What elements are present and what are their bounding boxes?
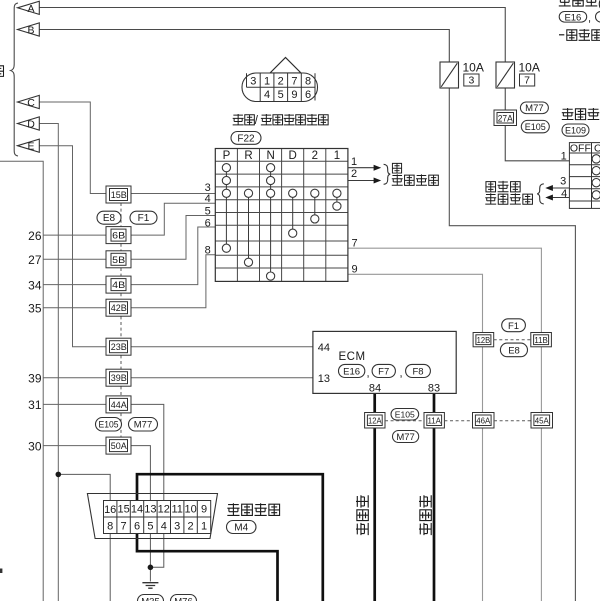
fuse 3 number box xyxy=(464,74,479,86)
svg-text:7: 7 xyxy=(524,75,530,87)
svg-text:ECM: ECM xyxy=(339,351,366,363)
F22 contact circles xyxy=(222,164,341,281)
connector 5B xyxy=(106,251,131,268)
svg-text:E8: E8 xyxy=(103,213,116,224)
svg-text:44: 44 xyxy=(318,342,330,354)
svg-text:1: 1 xyxy=(351,156,357,168)
connector label E105 xyxy=(96,418,122,432)
fuse 3 10A xyxy=(440,62,459,88)
dashed links 12A 11A 46A 45A xyxy=(385,420,531,422)
svg-text:10A: 10A xyxy=(463,61,484,75)
wire pin 26 to 6B xyxy=(43,234,106,236)
M4 cells row 1 xyxy=(104,501,211,534)
small mark at left edge bottom xyxy=(0,569,2,574)
wire M4 pin 5 to ground junction xyxy=(149,534,151,582)
connector 11B xyxy=(531,333,552,347)
svg-text:E16: E16 xyxy=(343,367,360,378)
svg-text:27A: 27A xyxy=(498,113,514,124)
svg-text:E105: E105 xyxy=(99,420,119,430)
wire D down to bottom xyxy=(39,124,58,601)
connector 12B xyxy=(473,333,494,347)
svg-text:12B: 12B xyxy=(477,335,491,345)
M4 cell numbers xyxy=(104,504,207,533)
svg-text:D: D xyxy=(27,119,35,131)
wire 5B to F22 pin 5 xyxy=(131,216,215,260)
connector 23B xyxy=(106,338,131,355)
off-page arrow E xyxy=(18,139,40,153)
wire pin 34 to 4B xyxy=(43,284,106,286)
svg-text:39: 39 xyxy=(28,372,42,386)
wire 50A to M4 pin 13 xyxy=(131,446,150,501)
thick data line M4 pin 6 xyxy=(137,534,278,601)
svg-text:39B: 39B xyxy=(111,373,127,384)
svg-text:F7: F7 xyxy=(378,367,389,378)
thick data line ECM pin 84 xyxy=(373,393,376,601)
data link connector M4 trapezoid xyxy=(87,494,217,539)
wire E109 pin 3 to shift lock xyxy=(545,185,569,191)
ECM connector label F8 xyxy=(406,364,431,377)
label brake lamp switch xyxy=(562,108,600,120)
ECM box xyxy=(313,331,456,393)
label electric unit xyxy=(559,29,600,40)
svg-text:M35: M35 xyxy=(141,597,159,601)
connector 42B xyxy=(106,299,131,316)
svg-text:34: 34 xyxy=(28,278,42,292)
connector label E105 xyxy=(521,120,549,132)
svg-text:N: N xyxy=(266,150,274,162)
F22 header letters xyxy=(223,150,341,162)
svg-text:27: 27 xyxy=(28,253,42,267)
svg-text:ON: ON xyxy=(594,143,600,155)
connector 45A xyxy=(531,413,553,429)
svg-text:10A: 10A xyxy=(519,61,540,75)
svg-text:12A: 12A xyxy=(368,415,382,425)
svg-text:,: , xyxy=(588,13,591,25)
svg-text:5: 5 xyxy=(278,89,284,101)
wire F22 pin 2 to start system xyxy=(348,178,381,184)
brace shift lock xyxy=(537,184,544,204)
dashed link 12B 11B xyxy=(494,339,531,341)
svg-text:10: 10 xyxy=(184,504,196,516)
svg-text:F1: F1 xyxy=(508,321,519,332)
connector 12A xyxy=(365,413,385,429)
svg-text:D: D xyxy=(289,150,297,162)
connector label F1 xyxy=(502,319,526,332)
wire A to fuse 7 xyxy=(39,8,505,63)
off-page arrow C xyxy=(18,95,40,109)
wire 15B to F22 pin 3 xyxy=(131,193,215,195)
wire C to 15B xyxy=(39,102,106,194)
wire F22 pin 9 to 12B 46A down to bottom xyxy=(348,274,483,601)
svg-text:11A: 11A xyxy=(427,415,441,425)
svg-text:8: 8 xyxy=(107,520,113,532)
connector label M77 xyxy=(520,102,548,114)
svg-text:4B: 4B xyxy=(112,280,125,291)
svg-text:M77: M77 xyxy=(525,103,543,114)
svg-text:11B: 11B xyxy=(534,335,548,345)
svg-text:M77: M77 xyxy=(396,432,414,443)
wire 39B to ECM pin 13 xyxy=(131,377,313,379)
svg-text:8: 8 xyxy=(305,76,311,88)
connector 11A xyxy=(424,413,444,429)
label page char (clipped) xyxy=(0,66,4,77)
connector label M77 mid xyxy=(393,431,419,443)
connector label F1 xyxy=(130,211,157,224)
connector 44A xyxy=(106,396,131,413)
E109 contact circles xyxy=(592,155,600,199)
label park neutral position switch xyxy=(233,114,328,127)
connector label E109 xyxy=(562,124,589,136)
F22 connector pictogram tab xyxy=(270,58,301,74)
svg-text:E8: E8 xyxy=(508,346,520,357)
ground connector labels M35 M76 xyxy=(138,595,164,601)
junction dot on D line xyxy=(56,472,62,478)
wire pin 31 to 44A xyxy=(43,403,106,405)
label connector top right xyxy=(559,0,600,10)
F22 pin labels right xyxy=(351,156,358,276)
svg-text:1: 1 xyxy=(264,76,270,88)
svg-text:15: 15 xyxy=(117,504,129,516)
svg-text:E109: E109 xyxy=(565,126,586,136)
off-page brace xyxy=(11,3,18,156)
connector label E8 xyxy=(500,343,527,357)
svg-text:2: 2 xyxy=(188,520,194,532)
connector label E105 mid xyxy=(391,409,419,421)
wire M4 pin 4 to ground junction xyxy=(150,534,163,568)
wire 6B to F22 pin 4 xyxy=(131,203,215,235)
svg-text:M4: M4 xyxy=(234,523,248,534)
svg-text:OFF: OFF xyxy=(570,143,591,155)
connector label E8 xyxy=(97,211,121,224)
svg-text:23B: 23B xyxy=(111,342,127,353)
wire pin 39 to 39B xyxy=(43,377,106,379)
connector label M77 xyxy=(129,418,158,432)
wire pin 27 to 5B xyxy=(43,258,106,260)
wire pin 30 to 50A xyxy=(43,445,106,447)
svg-text:B: B xyxy=(27,25,34,37)
svg-text:1: 1 xyxy=(334,150,340,162)
connector label E16 top right xyxy=(559,12,587,23)
connector 50A xyxy=(106,437,131,454)
svg-text:14: 14 xyxy=(131,504,143,516)
connector 39B xyxy=(106,369,131,386)
svg-text:2: 2 xyxy=(351,168,357,180)
svg-text:1: 1 xyxy=(561,151,567,163)
svg-text:F22: F22 xyxy=(237,133,255,144)
svg-text:31: 31 xyxy=(28,398,42,412)
svg-text:4: 4 xyxy=(205,193,211,205)
svg-text:84: 84 xyxy=(369,383,381,395)
svg-text:M77: M77 xyxy=(134,420,152,431)
svg-text:26: 26 xyxy=(28,229,42,243)
svg-text:12: 12 xyxy=(158,504,170,516)
ECM connector label F7 xyxy=(372,364,395,377)
label data line 1 xyxy=(356,495,368,535)
svg-text:E105: E105 xyxy=(395,410,415,420)
svg-text:42B: 42B xyxy=(111,303,127,314)
svg-text:6B: 6B xyxy=(112,231,125,242)
svg-text:2: 2 xyxy=(312,150,318,162)
F22 switch table grid xyxy=(215,149,348,282)
F22 contact link lines xyxy=(226,172,337,272)
svg-text:1: 1 xyxy=(201,520,207,532)
svg-text:8: 8 xyxy=(205,245,211,257)
wire F22 pin 7 to 11B 45A down to bottom xyxy=(348,248,542,601)
off-page arrow B xyxy=(18,23,40,37)
connector 6B xyxy=(106,227,131,244)
wire fuse 3 output to bottom edge xyxy=(449,88,575,601)
svg-text:9: 9 xyxy=(352,264,358,276)
svg-text:E: E xyxy=(27,141,34,153)
svg-text:6: 6 xyxy=(205,218,211,230)
svg-text:9: 9 xyxy=(291,89,297,101)
svg-text:5: 5 xyxy=(205,206,211,218)
label data line 2 xyxy=(419,495,431,535)
connector label partial oval top right xyxy=(596,12,600,23)
wire F22 pin 1 to start system xyxy=(348,165,381,171)
svg-text:9: 9 xyxy=(201,504,207,516)
svg-text:6: 6 xyxy=(305,89,311,101)
svg-text:3: 3 xyxy=(468,75,474,87)
connector 4B xyxy=(106,276,131,293)
wire E down to bottom xyxy=(39,146,106,347)
svg-text:7: 7 xyxy=(121,520,127,532)
svg-text:P: P xyxy=(223,150,231,162)
fuse 7 number box xyxy=(520,74,535,86)
wire B to fuse 3 xyxy=(39,30,449,63)
svg-text:30: 30 xyxy=(28,439,42,453)
wire junction branch to M4 pin 16 xyxy=(58,474,110,500)
svg-text:44A: 44A xyxy=(111,400,128,411)
connector 46A xyxy=(473,413,495,429)
connector 27A xyxy=(494,110,517,126)
svg-text:7: 7 xyxy=(291,76,297,88)
connector label M4 xyxy=(227,521,257,534)
brace start system xyxy=(384,164,391,184)
svg-text:,: , xyxy=(400,368,403,380)
label to shift lock system xyxy=(485,181,532,204)
wire 23B to ECM pin 44 xyxy=(131,346,313,348)
svg-text:R: R xyxy=(244,150,252,162)
wire 44A to M4 pin 12 xyxy=(131,404,164,500)
wire fuse 7 through 27A to E109 pin 1 xyxy=(505,88,569,161)
connector label F22 xyxy=(231,132,261,145)
svg-text:A: A xyxy=(27,3,34,15)
F22 connector pictogram body xyxy=(242,73,318,102)
svg-text:E16: E16 xyxy=(564,12,581,23)
svg-text:11: 11 xyxy=(171,504,182,516)
svg-text:,: , xyxy=(367,368,370,380)
svg-text:2: 2 xyxy=(278,76,284,88)
svg-text:13: 13 xyxy=(318,373,330,385)
ground symbol M35 M76 xyxy=(142,583,158,589)
thick data line ECM pin 83 xyxy=(433,393,436,601)
junction dot ground xyxy=(148,565,154,571)
svg-text:83: 83 xyxy=(428,383,440,395)
svg-text:F8: F8 xyxy=(412,367,423,378)
wire 4B to F22 pin 6 xyxy=(131,227,215,285)
svg-text:5B: 5B xyxy=(112,255,125,266)
svg-text:50A: 50A xyxy=(111,441,128,452)
wire pin 35 to 42B xyxy=(43,307,106,309)
wire M4 pin 8 down to bottom xyxy=(109,534,111,601)
svg-text:7: 7 xyxy=(352,238,358,250)
svg-text:M76: M76 xyxy=(174,597,192,601)
svg-text:35: 35 xyxy=(28,302,42,316)
fuse 7 10A xyxy=(496,62,515,88)
svg-text:16: 16 xyxy=(104,504,116,516)
svg-text:F1: F1 xyxy=(138,213,150,224)
svg-text:C: C xyxy=(27,97,35,109)
thick data line M4 pin 14 xyxy=(137,474,323,601)
pictogram pin numbers xyxy=(250,76,311,102)
wire from left edge down to bottom xyxy=(0,161,43,601)
svg-text:15B: 15B xyxy=(111,190,127,201)
wire 42B to F22 pin 8 xyxy=(131,255,215,308)
svg-text:3: 3 xyxy=(250,76,256,88)
dashed chain line xyxy=(120,203,122,437)
svg-text:4: 4 xyxy=(264,89,270,101)
connector 15B xyxy=(106,186,131,203)
F22 pin labels left xyxy=(205,182,211,256)
svg-text:E105: E105 xyxy=(525,122,546,132)
brake switch E109 table xyxy=(569,143,600,209)
svg-text:3: 3 xyxy=(560,175,566,187)
off-page arrow A xyxy=(18,1,40,15)
svg-text:3: 3 xyxy=(174,520,180,532)
svg-text:5: 5 xyxy=(147,520,153,532)
ECM connector label E16 xyxy=(339,364,365,377)
wire E109 pin 4 to shift lock xyxy=(545,195,569,201)
svg-text:13: 13 xyxy=(144,504,156,516)
label data interface xyxy=(227,503,279,515)
svg-text:4: 4 xyxy=(161,520,167,532)
off-page arrow D xyxy=(18,117,40,131)
label to starting system xyxy=(392,163,439,185)
svg-text:6: 6 xyxy=(134,520,140,532)
svg-text:45A: 45A xyxy=(535,415,549,425)
svg-text:46A: 46A xyxy=(476,415,490,425)
